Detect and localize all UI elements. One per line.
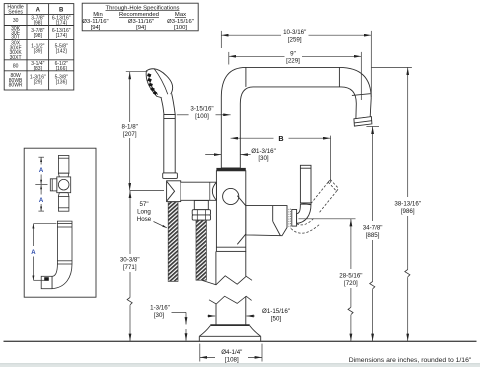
- svg-text:Dimensions are inches, rounded: Dimensions are inches, rounded to 1/16": [349, 357, 472, 364]
- dim B handle reach: [231, 133, 331, 183]
- svg-text:34-7/8": 34-7/8": [363, 225, 383, 232]
- svg-text:[720]: [720]: [344, 280, 358, 287]
- dim 34-7/8 spout outlet height: [363, 126, 383, 341]
- svg-text:[174]: [174]: [56, 20, 68, 26]
- svg-text:[98]: [98]: [34, 20, 43, 26]
- dim dia 4-1/4 base: [200, 344, 262, 364]
- svg-text:Recommended: Recommended: [119, 12, 159, 18]
- svg-text:[94]: [94]: [91, 25, 101, 31]
- dim 1-3/16 base height: [150, 305, 186, 341]
- bottom page strip: [0, 364, 480, 367]
- svg-text:[30]: [30]: [154, 312, 165, 319]
- svg-text:[100]: [100]: [174, 25, 187, 31]
- floor line: [4, 340, 477, 342]
- svg-text:1-3/16": 1-3/16": [150, 305, 170, 312]
- svg-text:Through-Hole Specifications: Through-Hole Specifications: [106, 5, 180, 11]
- svg-text:28-5/16": 28-5/16": [339, 273, 362, 280]
- svg-text:[259]: [259]: [288, 37, 302, 44]
- escutcheon base: [199, 325, 260, 341]
- shower face spray band: [148, 75, 157, 94]
- svg-text:[207]: [207]: [123, 131, 137, 138]
- svg-text:Series: Series: [8, 10, 23, 16]
- spout outlet flange: [354, 117, 372, 127]
- svg-text:Ø3-11/16": Ø3-11/16": [128, 19, 154, 25]
- svg-text:A: A: [39, 168, 44, 174]
- svg-text:[174]: [174]: [56, 33, 68, 39]
- valve cartridge: [246, 206, 287, 236]
- dim 28-5/16 valve height: [299, 219, 363, 341]
- svg-text:Ø3-15/16": Ø3-15/16": [167, 19, 194, 25]
- body chamfers: [237, 196, 246, 245]
- inset valve figure: [50, 156, 70, 212]
- svg-text:[98]: [98]: [34, 33, 43, 39]
- svg-text:[83]: [83]: [34, 66, 43, 72]
- svg-text:A: A: [31, 250, 36, 256]
- svg-text:Min: Min: [93, 12, 103, 18]
- svg-text:[142]: [142]: [56, 49, 68, 55]
- inset spout dim A: [31, 224, 56, 281]
- handle series table: [4, 4, 74, 90]
- svg-text:Long: Long: [137, 208, 151, 215]
- svg-text:[100]: [100]: [195, 113, 209, 120]
- hose outlet fitting: [194, 201, 208, 210]
- hose hex nuts: [192, 210, 210, 220]
- through-hole specifications table: [82, 3, 198, 31]
- svg-text:[29]: [29]: [34, 79, 43, 85]
- dim 10-3/16 spout reach: [221, 29, 371, 98]
- svg-text:10-3/16": 10-3/16": [283, 29, 306, 36]
- svg-text:30XT: 30XT: [10, 55, 22, 61]
- dim 30-3/8 holder height: [120, 191, 164, 341]
- column break upper: [201, 276, 252, 285]
- rough-in inset box: [24, 148, 96, 297]
- svg-text:A: A: [36, 7, 41, 13]
- dim 3-15/16 handshower offset: [177, 106, 231, 120]
- spout tube: [221, 67, 371, 168]
- svg-text:A: A: [39, 198, 44, 204]
- svg-text:Max: Max: [175, 12, 186, 18]
- dim 8-1/8 handshower length: [122, 72, 148, 191]
- svg-text:Ø3-11/16": Ø3-11/16": [82, 19, 108, 25]
- shower neck: [161, 94, 175, 115]
- phantom handle (dashed alternate position): [291, 180, 339, 234]
- handshower holder block: [167, 181, 181, 202]
- label 57in long hose: [137, 201, 167, 228]
- dim dia 1-15/16 column: [207, 308, 290, 322]
- svg-text:[986]: [986]: [401, 208, 415, 215]
- svg-text:[39]: [39]: [34, 49, 43, 55]
- svg-text:B: B: [278, 134, 283, 143]
- body hose segment: [196, 220, 206, 280]
- inset valve dim A upper: [35, 157, 47, 211]
- valve body: [216, 171, 245, 252]
- svg-text:B: B: [59, 7, 64, 13]
- lower column (below body): [216, 251, 246, 325]
- svg-text:38-13/16": 38-13/16": [394, 201, 421, 208]
- dim 9 spout centers: [229, 50, 361, 101]
- svg-text:[166]: [166]: [56, 66, 68, 72]
- column break lower: [209, 296, 252, 304]
- inset spout figure: [41, 221, 72, 289]
- svg-text:8-1/8": 8-1/8": [122, 124, 138, 131]
- svg-text:Ø1-15/16": Ø1-15/16": [262, 308, 290, 315]
- grip hose nut: [163, 173, 178, 179]
- svg-text:80: 80: [13, 63, 19, 69]
- handle elbow: [297, 204, 311, 223]
- svg-text:[94]: [94]: [136, 25, 146, 31]
- svg-text:[136]: [136]: [56, 79, 68, 85]
- svg-text:Hose: Hose: [137, 216, 152, 223]
- svg-text:[108]: [108]: [225, 357, 239, 364]
- svg-text:[229]: [229]: [286, 58, 300, 65]
- hand shower hose segment: [168, 202, 178, 282]
- handle grip: [300, 165, 311, 205]
- body dial circle: [223, 188, 239, 204]
- collar hidden ridges: [289, 209, 291, 229]
- svg-text:[30]: [30]: [258, 155, 269, 162]
- svg-text:Ø4-1/4": Ø4-1/4": [221, 349, 242, 356]
- svg-text:57": 57": [139, 201, 148, 208]
- svg-text:30: 30: [13, 18, 19, 24]
- svg-text:80WR: 80WR: [9, 83, 23, 89]
- shower grip: [164, 115, 175, 173]
- valve neck ring: [292, 210, 297, 227]
- svg-text:3-15/16": 3-15/16": [190, 106, 213, 113]
- dim 38-13/16 overall height: [372, 67, 421, 341]
- svg-text:30-3/8": 30-3/8": [120, 257, 140, 264]
- svg-text:[50]: [50]: [271, 316, 282, 323]
- hand shower head: [146, 68, 173, 98]
- svg-text:Ø1-3/16": Ø1-3/16": [251, 148, 276, 155]
- svg-text:[885]: [885]: [366, 232, 380, 239]
- body cap flange: [216, 168, 245, 171]
- holder arm to body: [181, 182, 217, 200]
- dim dia 1-3/16 riser: [205, 148, 276, 162]
- svg-text:[771]: [771]: [123, 264, 137, 271]
- svg-text:9": 9": [290, 50, 296, 57]
